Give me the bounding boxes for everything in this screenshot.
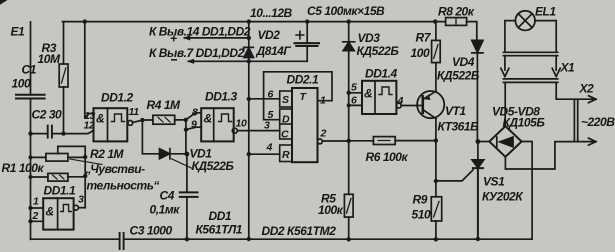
svg-text:DD2.1: DD2.1 [287, 73, 320, 87]
svg-text:D: D [282, 114, 290, 126]
svg-text:КД522Б: КД522Б [437, 69, 480, 83]
svg-text:8: 8 [192, 107, 198, 119]
svg-text:R9: R9 [413, 193, 428, 207]
svg-text:C1: C1 [22, 63, 37, 77]
svg-text:6: 6 [268, 89, 274, 101]
svg-text:3: 3 [264, 120, 270, 132]
svg-text:4: 4 [397, 95, 404, 107]
svg-text:C2 30: C2 30 [32, 108, 63, 122]
svg-text:1: 1 [320, 95, 326, 107]
svg-text:DD1.4: DD1.4 [365, 67, 398, 81]
svg-text:&: & [204, 112, 212, 126]
svg-text:КД105Б: КД105Б [503, 116, 546, 130]
svg-text:2: 2 [32, 210, 39, 222]
svg-text:DD1: DD1 [209, 209, 232, 223]
svg-text:С3 1000: С3 1000 [130, 224, 173, 238]
svg-text:КД522Б: КД522Б [357, 44, 400, 58]
svg-text:„Чувстви-: „Чувстви- [85, 162, 146, 176]
svg-text:S: S [282, 94, 289, 106]
svg-text:КУ202К: КУ202К [482, 190, 524, 204]
svg-text:X2: X2 [579, 82, 595, 96]
svg-text:510: 510 [412, 208, 431, 222]
svg-text:&: & [364, 87, 372, 101]
svg-text:12: 12 [84, 120, 96, 132]
svg-text:6: 6 [351, 95, 357, 107]
svg-text:DD1.1: DD1.1 [44, 184, 77, 198]
svg-text:+: + [170, 32, 177, 46]
svg-text:10М: 10М [38, 52, 61, 66]
svg-text:2: 2 [320, 128, 327, 140]
svg-text:10: 10 [236, 118, 248, 130]
svg-text:КТ361Б: КТ361Б [438, 120, 480, 134]
svg-text:R1 100к: R1 100к [2, 161, 45, 175]
svg-text:тельность“: тельность“ [87, 179, 160, 193]
svg-text:VT1: VT1 [445, 104, 466, 118]
svg-text:R7: R7 [416, 31, 432, 45]
svg-text:4: 4 [266, 142, 273, 154]
svg-text:R2 1М: R2 1М [90, 147, 125, 161]
svg-text:11: 11 [129, 106, 140, 118]
svg-text:EL1: EL1 [535, 4, 556, 18]
svg-text:VD4: VD4 [452, 55, 475, 69]
svg-text:~220В: ~220В [581, 115, 615, 129]
svg-text:VS1: VS1 [483, 175, 505, 189]
svg-text:R6 100к: R6 100к [366, 150, 409, 164]
svg-text:КД522Б: КД522Б [192, 159, 235, 173]
svg-text:1: 1 [33, 196, 39, 208]
svg-text:К561ТЛ1: К561ТЛ1 [196, 223, 243, 237]
svg-text:Д814Г: Д814Г [256, 44, 292, 58]
svg-text:&: & [96, 112, 104, 126]
svg-text:R: R [282, 149, 290, 161]
svg-text:10...12В: 10...12В [250, 6, 293, 20]
svg-text:R4 1М: R4 1М [147, 98, 182, 112]
svg-text:100к: 100к [318, 203, 344, 217]
svg-text:&: & [46, 205, 54, 219]
svg-text:5: 5 [351, 82, 357, 94]
svg-text:DD1.2: DD1.2 [101, 91, 134, 105]
svg-text:С5 100мк×15В: С5 100мк×15В [307, 4, 385, 18]
svg-text:DD2 К561ТМ2: DD2 К561ТМ2 [262, 224, 337, 238]
svg-text:X1: X1 [560, 61, 576, 75]
svg-text:E1: E1 [11, 25, 26, 39]
svg-text:C4: C4 [160, 189, 175, 203]
svg-text:C: C [281, 129, 289, 141]
svg-text:DD1.3: DD1.3 [205, 90, 238, 104]
svg-text:100: 100 [12, 77, 31, 91]
svg-text:9: 9 [191, 119, 197, 131]
svg-text:VD2: VD2 [258, 28, 281, 42]
svg-text:0,1мк: 0,1мк [150, 203, 181, 217]
svg-text:3: 3 [78, 194, 84, 206]
svg-text:R8 20к: R8 20к [438, 4, 475, 18]
svg-text:VD3: VD3 [358, 31, 381, 45]
svg-text:100: 100 [411, 46, 430, 60]
svg-text:К Выв.7 DD1,DD2: К Выв.7 DD1,DD2 [149, 46, 245, 60]
svg-text:К Выв.14 DD1,DD2: К Выв.14 DD1,DD2 [149, 25, 251, 39]
